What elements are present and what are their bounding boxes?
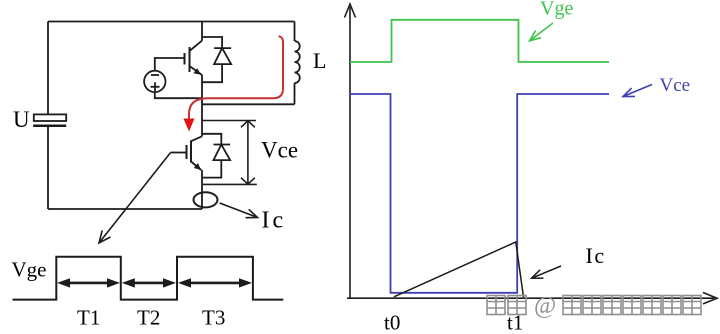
svg-text:Vge: Vge bbox=[540, 0, 573, 20]
red commutation path bbox=[189, 36, 283, 118]
diode D1 top freewheel bbox=[202, 37, 231, 82]
capacitor U bbox=[33, 114, 66, 125]
wire right branch upper bbox=[294, 22, 296, 42]
Vge waveform trace bbox=[13, 257, 284, 300]
x-axis bbox=[347, 293, 717, 304]
svg-text:T1: T1 bbox=[77, 306, 100, 330]
IGBT Q2 bottom bbox=[171, 136, 202, 170]
wire driver to gate bbox=[155, 58, 185, 71]
svg-text:Vce: Vce bbox=[261, 138, 298, 163]
wire bottom rail bbox=[48, 208, 202, 210]
arrow Vce blue bbox=[623, 85, 652, 97]
diode D2 bottom freewheel bbox=[202, 134, 230, 178]
arrow Ic right bbox=[532, 266, 562, 278]
wire left rail lower bbox=[47, 127, 49, 210]
T1 span arrow bbox=[57, 278, 120, 287]
svg-text:Vge: Vge bbox=[12, 258, 47, 282]
arrow to Ic label bbox=[220, 203, 258, 218]
wire right branch lower bbox=[294, 83, 296, 104]
Vge waveform green bbox=[350, 20, 609, 62]
arrow Vge green bbox=[530, 23, 554, 41]
svg-text:L: L bbox=[313, 48, 326, 73]
svg-text:T3: T3 bbox=[202, 306, 225, 330]
gate drive source V1 bbox=[144, 71, 165, 92]
wire driver return bbox=[155, 92, 202, 98]
svg-text:U: U bbox=[13, 107, 30, 132]
wire midpoint to inductor bbox=[202, 103, 295, 105]
Ic trace bbox=[394, 242, 524, 297]
svg-text:t0: t0 bbox=[384, 311, 400, 334]
wire half-bridge collector top bbox=[201, 22, 203, 41]
svg-text:Ic: Ic bbox=[262, 208, 287, 234]
svg-text:Ic: Ic bbox=[586, 243, 606, 268]
red arrowhead bbox=[184, 119, 195, 132]
wire top rail bbox=[48, 21, 295, 23]
svg-text:T2: T2 bbox=[137, 306, 160, 330]
svg-text:Vce: Vce bbox=[660, 75, 691, 96]
svg-text:@: @ bbox=[534, 293, 556, 319]
T3 span arrow bbox=[178, 278, 252, 287]
T2 span arrow bbox=[122, 278, 176, 287]
Vce waveform blue bbox=[350, 94, 609, 293]
current probe ellipse bbox=[194, 192, 218, 207]
y-axis bbox=[345, 4, 356, 298]
annotation arrow gate to Vge bbox=[99, 153, 171, 244]
inductor L bbox=[295, 41, 300, 83]
wire half-bridge emitter bottom bbox=[201, 170, 203, 209]
wire left rail upper bbox=[47, 22, 49, 115]
IGBT Q1 top bbox=[185, 41, 203, 75]
watermark zhihu bbox=[487, 296, 701, 315]
wire half-bridge midpoint bbox=[201, 75, 203, 137]
Vce measurement lines bbox=[202, 121, 257, 185]
